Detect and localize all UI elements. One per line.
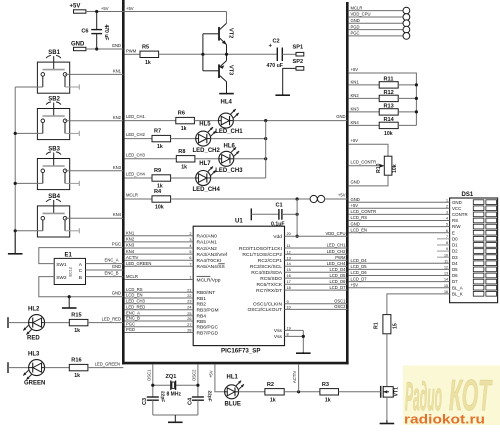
svg-text:R16: R16 [71,358,81,364]
pin 14 RC3/SCK/SCL wire LED_CH4 [250,261,347,270]
DS1 pin 10 D3 [437,253,497,260]
svg-text:19: 19 [287,326,291,330]
svg-text:R4: R4 [154,189,162,195]
svg-text:SW1: SW1 [56,262,67,268]
svg-text:ENC_A: ENC_A [105,257,119,262]
svg-text:+5V: +5V [126,6,134,11]
wire C3 to rail [152,400,154,415]
wire PWM from bus [125,53,141,55]
wire left ground rail [14,87,16,231]
connector DS1 body [450,198,498,303]
wire R7 to HL5 [171,138,196,140]
svg-text:7: 7 [189,262,191,266]
wire E1 A ENC_A [86,263,124,265]
svg-text:HL3: HL3 [28,352,40,358]
svg-text:13: 13 [287,256,291,260]
svg-text:LED_CH1: LED_CH1 [327,243,347,248]
svg-text:R13: R13 [384,103,394,109]
pin 9 OSC1/CLKIN wire OSC1 [253,299,347,308]
wire SP2 to ground [283,68,296,95]
svg-text:8: 8 [446,241,448,245]
svg-text:VDD_CPU: VDD_CPU [351,12,371,17]
svg-text:SB3: SB3 [48,147,60,153]
DS1 pin 7 D0 [437,235,497,242]
pin 6 RA4/T0CKI wire ACTIV [125,255,222,264]
wire LED gnd rail [265,121,267,178]
svg-text:RA3/AN3/Vref: RA3/AN3/Vref [197,252,228,258]
svg-text:PGC: PGC [112,241,121,246]
pin 26 RB5 wire ENC_B [125,316,207,325]
svg-text:21: 21 [187,288,191,292]
svg-text:MCLR: MCLR [126,274,138,279]
svg-text:EC12: EC12 [69,267,73,277]
wire R4 to jumper [171,198,311,200]
svg-text:D5: D5 [452,267,458,272]
LED HL7 [196,166,216,185]
svg-text:LCD_D6: LCD_D6 [329,279,346,284]
svg-text:R7: R7 [154,129,161,135]
svg-text:OSC1/CLKIN: OSC1/CLKIN [253,302,283,308]
wire HL3 to R16 [45,367,70,369]
svg-text:RC3/SCK/SCL: RC3/SCK/SCL [250,264,282,270]
svg-text:+: + [269,44,273,50]
svg-text:+5V: +5V [101,6,109,11]
pin 16 RC5/SDO wire LCD_D5 [260,273,347,282]
svg-text:KN2: KN2 [351,93,360,98]
svg-text:+5V: +5V [351,138,359,143]
LED HL5 [196,127,216,146]
pins 19,8 Vss [274,326,305,352]
resistor R5 [140,44,159,66]
svg-text:RC6/TX/CK: RC6/TX/CK [256,282,282,288]
svg-text:RA2/AN2: RA2/AN2 [197,246,218,252]
wire bottom bus [122,362,349,365]
svg-text:1: 1 [446,198,448,202]
svg-text:LCD_EN: LCD_EN [351,227,368,232]
wire KN4 to bus [65,217,123,219]
wire SB4 to left rail [15,230,43,232]
wire KN2 to bus [65,120,123,122]
wire +5V to VT2 collector [226,12,228,24]
svg-text:D7: D7 [452,279,458,284]
svg-text:R5: R5 [142,44,149,50]
wire HL2 to R15 [45,322,70,324]
wire OSC2 drop [197,364,199,397]
resistor R3 [320,382,339,404]
pin 10 OSC2/CLKOUT wire OSC2 [247,304,347,313]
wire C1 to VDD vert [282,213,297,215]
wire +5V to R10 [349,144,388,156]
svg-text:LCD_D5: LCD_D5 [351,264,368,269]
svg-text:C4: C4 [187,397,193,405]
svg-text:GND: GND [71,41,85,47]
DS1 pin 5 R/W [349,221,497,229]
wire R16 to bus LED_GREEN [88,367,123,369]
svg-text:+5V: +5V [351,67,359,72]
pin 12 RC1/T1OSI/CCP2 wire LED_CH2 [242,249,347,258]
svg-text:R1: R1 [374,322,380,329]
svg-text:C: C [79,268,83,274]
svg-text:8 MHz: 8 MHz [167,392,182,398]
svg-text:3: 3 [446,211,448,215]
capacitor C4 22pF [187,391,212,406]
svg-text:GND: GND [112,264,121,269]
svg-text:11: 11 [287,244,291,248]
connector pad PGC [349,31,410,40]
wire R8 to HL6 [195,158,219,160]
svg-text:B: B [79,275,82,281]
svg-text:LCD_D7: LCD_D7 [351,276,368,281]
resistor R4 [152,189,171,211]
svg-text:RC0/T1OSO/T1CKI: RC0/T1OSO/T1CKI [239,246,282,252]
svg-text:PIC16F73_SP: PIC16F73_SP [221,348,261,355]
svg-text:27: 27 [187,323,191,327]
svg-text:ACTIV: ACTIV [292,370,297,383]
connector pad GND [349,18,410,27]
svg-text:GND: GND [452,200,462,205]
resistor R15 [69,313,88,335]
pin 28 RB7/PGD wire PGD [125,327,219,336]
svg-text:HL4: HL4 [221,100,233,106]
wire GND to bus [86,48,123,50]
ground Vss [296,352,311,353]
svg-text:OSC1: OSC1 [334,299,346,304]
wire +5V pullup rail [349,73,417,125]
svg-text:Vss: Vss [274,328,283,334]
svg-text:MCLR/Vpp: MCLR/Vpp [197,277,221,283]
resistor R9 [152,168,171,190]
wire OSC1 drop [152,364,154,397]
svg-text:RC7/RX/DT: RC7/RX/DT [256,288,282,294]
svg-text:+5V: +5V [338,193,346,198]
svg-text:SB2: SB2 [48,97,60,103]
wire +5V rail top [123,11,226,13]
pin 21 RB0/INT wire LCD_RS [125,287,216,296]
svg-text:OSC2: OSC2 [191,369,196,381]
svg-text:SB1: SB1 [48,50,60,56]
svg-text:KN1: KN1 [351,80,360,85]
svg-text:GND: GND [112,291,121,296]
node C1/VDD [296,213,299,216]
wire VDD vertical [296,199,298,236]
pin 5 RA3/AN3/Vref wire KN4 [125,249,228,258]
svg-text:E1: E1 [65,253,73,259]
svg-text:4: 4 [189,244,191,248]
pin 7 RA5/AN4/SS wire LED_GREEN [125,261,226,270]
svg-text:10k: 10k [155,205,164,211]
svg-text:KN4: KN4 [126,249,135,254]
node ACTIV [297,390,300,393]
svg-text:KN3: KN3 [113,165,122,170]
wire VT2 emitter to node [226,45,228,55]
svg-text:HL5: HL5 [199,122,211,128]
svg-text:RA5/AN4/SS: RA5/AN4/SS [197,264,226,270]
svg-text:18: 18 [287,286,291,290]
svg-text:17: 17 [287,280,291,284]
wire R10 bottom to GND [349,175,388,186]
svg-text:LED_GREEN: LED_GREEN [126,261,151,266]
DS1 pin 1 GND [349,197,497,205]
pin name overbars [218,263,224,265]
ground buttons rail [8,231,23,254]
DS1 pin 3 CONTR [349,209,497,217]
svg-text:LED_CH4: LED_CH4 [126,172,146,177]
pushbutton SB2 [37,97,79,140]
svg-text:E: E [452,230,455,235]
wire ACTIV vertical [298,364,300,391]
DS1 pin 8 D1 [437,241,497,248]
svg-text:KN3: KN3 [351,107,360,112]
svg-text:GND: GND [112,43,121,48]
svg-text:GND: GND [351,197,360,202]
svg-text:16: 16 [287,274,291,278]
wire HL7 cathode to rail [211,177,266,179]
svg-text:KN2: KN2 [126,237,135,242]
capacitor C6 470uF [81,12,108,49]
svg-text:12: 12 [444,266,448,270]
pin 15 RC4/SDI/SDA wire LCD_D4 [251,267,347,276]
svg-text:VT2: VT2 [228,28,234,38]
svg-text:22: 22 [187,294,191,298]
svg-text:GND: GND [336,114,345,119]
pin 4 RA2/AN2 wire KN3 [125,243,218,252]
svg-text:10: 10 [287,305,291,309]
DS1 pin 2 VCC [349,203,497,211]
ground crystal [168,415,183,422]
svg-text:10: 10 [444,253,448,257]
DS1 pin 15 BL_A [349,282,497,290]
svg-text:OSC1: OSC1 [146,369,151,381]
svg-text:LCD_CONTR: LCD_CONTR [351,160,377,165]
wire R1 to VT1 drain [386,334,388,386]
wire KN1 to bus [65,73,123,75]
svg-text:LED_CH4: LED_CH4 [327,261,347,266]
node SW2 gnd [68,295,71,298]
svg-text:KN3: KN3 [126,243,135,248]
svg-text:6: 6 [446,229,448,233]
svg-text:OSC2: OSC2 [334,304,346,309]
svg-text:ENC_B: ENC_B [105,270,119,275]
svg-text:4: 4 [446,217,448,221]
svg-text:+5V: +5V [351,203,359,208]
svg-text:10k: 10k [392,164,398,173]
wire to VT2 base [203,33,218,35]
svg-text:OSC2/CLKOUT: OSC2/CLKOUT [247,307,282,313]
wire HL3 left [8,367,29,369]
pin 25 RB4 wire ENC_A [125,311,207,320]
svg-text:VCC: VCC [452,206,461,211]
svg-text:C1: C1 [276,203,283,209]
svg-text:GND: GND [351,221,360,226]
DS1 pin 11 D4 [349,258,497,266]
wire LED_CH1 from bus [125,120,176,122]
svg-text:14: 14 [444,278,448,282]
svg-text:RB7/PGD: RB7/PGD [197,330,219,336]
pin 22 RB1 wire LCD_EN [125,293,207,302]
svg-text:D2: D2 [452,249,458,254]
transistor VT2 [219,23,234,44]
wire R3 to VT1 gate [339,391,381,393]
encoder E1 [54,253,85,285]
transistor VT3 [219,61,234,82]
svg-text:ENC_B: ENC_B [126,316,140,321]
svg-text:HL7: HL7 [199,161,211,167]
node base feed [201,53,204,56]
svg-text:LED_CH3: LED_CH3 [126,152,146,157]
capacitor C1 0.1uF [251,203,284,228]
DS1 pin 9 D2 [437,247,497,254]
pin 2 RA0/AN0 wire KN1 [125,231,218,240]
svg-text:VT3: VT3 [228,65,234,75]
svg-text:+5V: +5V [208,370,213,378]
wire jumper to bus +5V [325,198,348,200]
connector pad VDD_CPU [349,12,410,21]
wire +5V to bus [86,11,123,13]
svg-text:R12: R12 [384,90,394,96]
wire HL4 cathode to bus GND [233,120,347,122]
svg-text:MCLR: MCLR [351,5,363,10]
svg-text:RS: RS [452,218,458,223]
wire E1 C GND [86,269,124,271]
svg-text:LED_RED: LED_RED [102,316,121,321]
svg-text:RB4: RB4 [197,314,207,320]
svg-text:RED: RED [27,336,40,342]
wire C2 to SP1 [282,53,296,55]
watermark radiokot background [403,366,500,426]
terminal bar HL3 [7,362,9,373]
svg-text:22pF: 22pF [207,391,213,402]
connector pad PGD [349,24,410,33]
resistor R11 [349,76,418,88]
pin 13 RC2/CCP1 wire PWM [258,255,348,264]
DS1 pin 12 D5 [349,264,497,272]
svg-text:HL2: HL2 [28,307,40,313]
svg-text:470 uF: 470 uF [267,63,283,69]
svg-text:5: 5 [446,223,448,227]
svg-text:24: 24 [187,306,191,310]
svg-text:PGD: PGD [351,24,360,29]
resistor R7 [152,129,171,151]
pin 3 RA1/AN1 wire KN2 [125,237,218,246]
pin 23 RB2 wire LED_CH3 [125,298,207,307]
svg-text:+5V: +5V [351,282,359,287]
wire LED_CH3 from bus [125,158,177,160]
svg-text:PWM: PWM [335,255,346,260]
svg-text:LCD_D5: LCD_D5 [329,273,346,278]
svg-text:2: 2 [189,232,191,236]
svg-text:R3: R3 [322,382,329,388]
svg-text:R8: R8 [178,149,185,155]
node GND/C6 [95,47,98,50]
svg-text:BL_K: BL_K [452,291,463,296]
node VDD_CPU [296,235,299,238]
svg-text:RA0/AN0: RA0/AN0 [197,234,218,240]
svg-text:PWM: PWM [126,49,137,54]
svg-text:20: 20 [287,232,291,236]
svg-text:3: 3 [189,238,191,242]
connector pad MCLR [349,5,410,14]
svg-text:PGC: PGC [126,322,135,327]
svg-text:1k: 1k [181,126,187,132]
svg-text:LCD_CONTR: LCD_CONTR [351,209,377,214]
pin 11 RC0/T1OSO/T1CKI wire LED_CH1 [239,243,347,252]
svg-text:VT1: VT1 [394,387,400,397]
wire R15 to bus LED_RED [88,322,123,324]
svg-text:1k: 1k [181,164,187,170]
resistor R8 [176,149,195,171]
DS1 pin 6 E [349,227,497,235]
node emitter output [225,53,228,56]
wire DS1 BL_K to R1 [387,294,450,315]
svg-text:R9: R9 [154,168,161,174]
svg-text:RC5/SDO: RC5/SDO [260,276,282,282]
svg-text:6: 6 [189,256,191,260]
svg-text:RB2: RB2 [197,302,207,308]
svg-text:R14: R14 [384,117,395,123]
wire VT3 collector down [226,82,228,94]
wire E1 B ENC_B [86,276,124,278]
transistor VT1 MOSFET [381,386,400,398]
terminal bar HL2 [7,317,9,328]
svg-text:R11: R11 [384,76,394,82]
svg-text:RB1: RB1 [197,296,207,302]
svg-text:15: 15 [287,268,291,272]
svg-text:KN4: KN4 [351,120,360,125]
wire base rail vertical [202,34,204,71]
svg-text:14: 14 [287,262,291,266]
IC U1 PIC16F73 body [193,226,284,345]
svg-text:R/W: R/W [452,224,461,229]
svg-text:C2: C2 [273,39,280,45]
pushbutton SB3 [37,147,79,190]
svg-text:D4: D4 [452,261,458,266]
svg-text:HL6: HL6 [224,144,236,150]
svg-text:Vss: Vss [274,334,283,340]
wire left bus [122,0,125,364]
svg-text:LCD_RS: LCD_RS [126,287,143,292]
svg-text:1k: 1k [270,397,276,403]
wire SB1 to left rail [15,86,43,88]
pin 20 Vdd wire VDD_CPU [273,231,347,240]
svg-text:RC4/SDI/SDA: RC4/SDI/SDA [251,270,282,276]
pushbutton SB4 [37,194,79,237]
wire crystal top [153,384,198,386]
LED HL2 red [23,315,44,335]
pushbutton SB1 [37,50,79,93]
svg-text:C6: C6 [81,29,88,35]
svg-text:RA4/T0CKI: RA4/T0CKI [197,258,222,264]
node rail row2 [264,137,267,140]
svg-text:GND: GND [351,18,360,23]
svg-text:RC2/CCP1: RC2/CCP1 [258,258,282,264]
svg-text:8: 8 [287,332,289,336]
wire SB2 to left rail [15,132,43,134]
svg-text:RA1/AN1: RA1/AN1 [197,240,218,246]
svg-text:1k: 1k [74,328,80,334]
svg-text:1k: 1k [145,60,151,66]
svg-text:D3: D3 [452,255,458,260]
svg-text:LED_CH1: LED_CH1 [126,114,146,119]
pin 17 RC6/TX/CK wire LCD_D6 [256,279,347,288]
svg-text:MCLR: MCLR [126,193,138,198]
wire HL6 cathode to rail [234,158,266,160]
svg-text:D6: D6 [452,273,458,278]
svg-text:LCD_D7: LCD_D7 [329,285,346,290]
svg-text:DS1: DS1 [462,192,474,198]
svg-text:VDD_CPU: VDD_CPU [325,231,345,236]
svg-text:PGD: PGD [126,327,135,332]
svg-text:+5V: +5V [70,4,81,10]
